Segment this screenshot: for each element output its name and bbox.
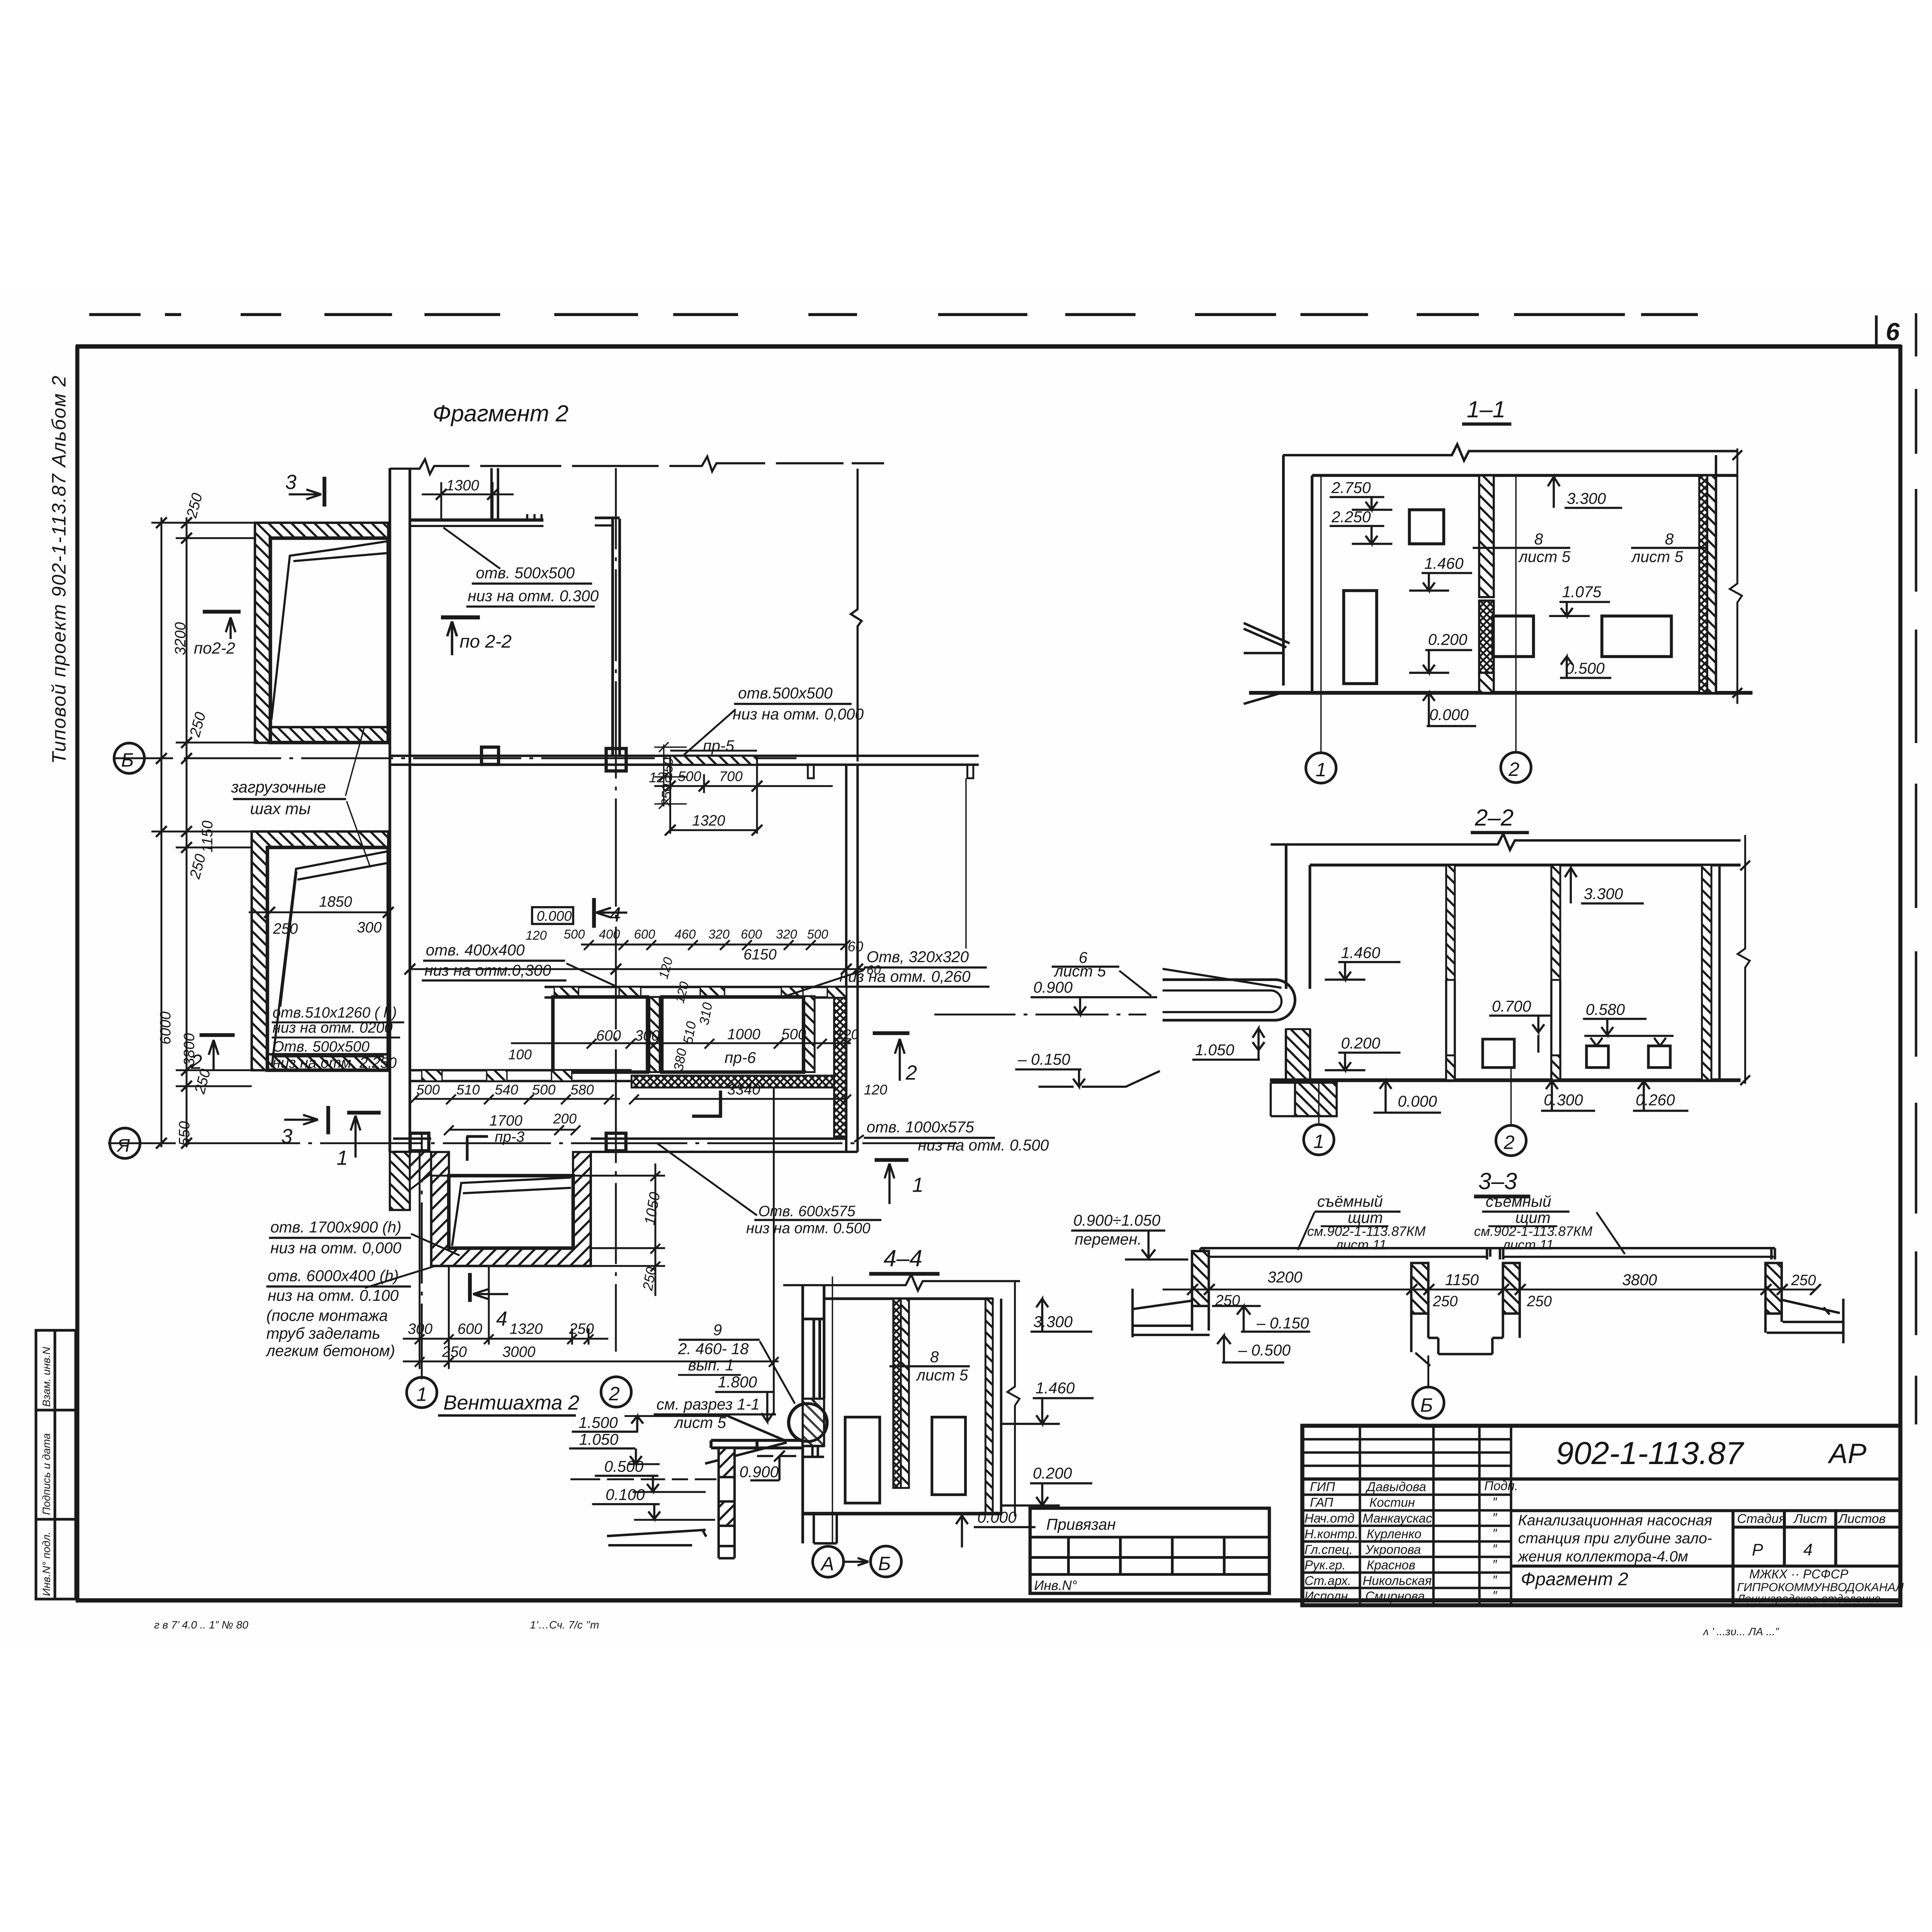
svg-text:1320: 1320: [692, 813, 725, 829]
wall hatched below pipe: [1286, 1029, 1310, 1080]
lower shaft chute lines: [272, 851, 388, 1067]
svg-text:легким бетоном): легким бетоном): [265, 1342, 395, 1359]
svg-text:0.000: 0.000: [977, 1508, 1017, 1526]
svg-text:580: 580: [570, 1082, 594, 1098]
lower shaft walls hatched: [252, 832, 388, 1070]
svg-text:– 0.150: – 0.150: [1256, 1314, 1309, 1332]
0.000 boxed level: [532, 907, 573, 924]
foundation foot: [1295, 1083, 1337, 1116]
svg-text:4: 4: [1803, 1541, 1813, 1560]
pipe lines entering left: [705, 1416, 787, 1463]
top slab bottom: [1312, 473, 1738, 478]
svg-text:(после монтажа: (после монтажа: [266, 1306, 388, 1324]
circle 2: [1496, 1125, 1526, 1155]
svg-text:съёмный: съёмный: [1486, 1192, 1551, 1210]
bottom column foot: [814, 1514, 837, 1543]
svg-text:320: 320: [776, 927, 798, 941]
svg-text:0.900: 0.900: [740, 1463, 779, 1481]
partition hatched: [1479, 475, 1494, 597]
pipe circle left: [788, 1403, 827, 1442]
vertical dim right of pit: [654, 1163, 657, 1296]
svg-text:0.000: 0.000: [537, 908, 572, 924]
svg-text:550: 550: [176, 1121, 193, 1146]
extension verticals bottom: [420, 1088, 774, 1413]
vent shaft cap band: [711, 1440, 803, 1448]
svg-text:0.700: 0.700: [1492, 997, 1531, 1015]
bottom wall of building: [393, 1137, 431, 1140]
1850 dim in lower shaft: [249, 911, 388, 914]
main title block outer: [1302, 1426, 1900, 1605]
extension lines: [151, 523, 255, 1086]
svg-text:Канализационная насосная: Канализационная насосная: [1518, 1512, 1713, 1529]
small tick below band: [808, 765, 814, 778]
svg-text:0.100: 0.100: [605, 1486, 645, 1503]
bottom crosshatch band of chambers: [631, 1076, 834, 1088]
floor: [1249, 690, 1753, 696]
svg-text:0.200: 0.200: [1341, 1034, 1380, 1052]
top broken edge of plan: [390, 456, 884, 474]
svg-text:100: 100: [508, 1047, 532, 1063]
top break line: [783, 1274, 1020, 1291]
svg-text:3: 3: [281, 1126, 293, 1148]
svg-text:120: 120: [649, 770, 672, 786]
svg-text:Ст.арх.: Ст.арх.: [1304, 1573, 1351, 1588]
svg-text:отв. 400х400: отв. 400х400: [426, 941, 525, 959]
svg-text:Стадия: Стадия: [1737, 1512, 1786, 1526]
svg-text:лист 11: лист 11: [1502, 1238, 1554, 1253]
svg-text:6: 6: [1886, 318, 1900, 346]
svg-text:3.300: 3.300: [1567, 490, 1606, 507]
dim chain 500 510 540 500 580: [414, 1097, 620, 1100]
svg-text:1850: 1850: [319, 893, 352, 910]
sump between pillar2 and 3: [1428, 1338, 1503, 1354]
section 4 arrow top: [591, 898, 597, 928]
svg-text:6150: 6150: [743, 946, 777, 963]
pillar 4 hatched right: [1765, 1263, 1782, 1314]
svg-text:1: 1: [417, 1383, 427, 1405]
svg-text:вып. 1: вып. 1: [688, 1356, 734, 1374]
svg-text:″: ″: [1492, 1495, 1497, 1509]
svg-text:низ на отм.0,300: низ на отм.0,300: [425, 961, 551, 979]
left foundation block: [553, 997, 648, 1072]
svg-text:низ на отм. 0.500: низ на отм. 0.500: [746, 1220, 871, 1237]
vent square: [1409, 510, 1444, 544]
svg-text:250: 250: [1791, 1272, 1816, 1289]
svg-text:1.050: 1.050: [1195, 1041, 1235, 1059]
interior wall crosshatched: [893, 1299, 901, 1488]
circle 1 bottom: [406, 1378, 437, 1408]
section 2 arrow left: [199, 1032, 235, 1038]
svg-text:500: 500: [807, 927, 829, 941]
svg-text:Смирнова: Смирнова: [1365, 1589, 1425, 1603]
hatched corner below-left: [390, 1152, 410, 1210]
svg-text:Никольская: Никольская: [1362, 1573, 1432, 1588]
svg-text:лист 5: лист 5: [916, 1366, 968, 1384]
svg-text:Нач.отд: Нач.отд: [1304, 1511, 1354, 1525]
svg-text:0.500: 0.500: [604, 1458, 644, 1475]
svg-text:АР: АР: [1827, 1438, 1867, 1469]
svg-text:лист 5: лист 5: [1054, 962, 1106, 980]
svg-text:пр-5: пр-5: [703, 737, 734, 755]
svg-text:0.900÷1.050: 0.900÷1.050: [1073, 1211, 1161, 1229]
svg-text:3.300: 3.300: [1033, 1313, 1073, 1330]
left signature grid: [1302, 1426, 1900, 1605]
svg-text:2: 2: [1503, 1131, 1515, 1153]
svg-text:120: 120: [864, 1082, 888, 1098]
svg-text:отв. 1700х900 (h): отв. 1700х900 (h): [270, 1218, 401, 1236]
left dimension chains: [160, 517, 163, 1147]
svg-text:низ на отм. 2,250: низ на отм. 2,250: [272, 1054, 397, 1071]
svg-text:Манкаускас: Манкаускас: [1362, 1511, 1432, 1525]
svg-text:1150: 1150: [199, 820, 216, 852]
svg-text:Ленинградское отделение: Ленинградское отделение: [1736, 1592, 1881, 1605]
circle 1: [1304, 1124, 1334, 1155]
svg-text:отв.510х1260 ( h): отв.510х1260 ( h): [272, 1004, 397, 1021]
svg-text:Отв, 320х320: Отв, 320х320: [867, 948, 969, 966]
svg-text:отв.500х500: отв.500х500: [738, 684, 833, 702]
dims 120 500 700 under pr5: [654, 785, 833, 787]
right outer dashed sheet edge: [1914, 313, 1918, 1425]
right wall of hall: [845, 765, 848, 1152]
svg-text:А: А: [820, 1553, 834, 1575]
svg-text:2–2: 2–2: [1475, 805, 1514, 831]
upper hall top ledge: [411, 518, 544, 522]
svg-text:Исполн.: Исполн.: [1304, 1589, 1351, 1603]
svg-text:низ на отм. 0.100: низ на отм. 0.100: [268, 1287, 399, 1304]
svg-text:0.260: 0.260: [1636, 1091, 1675, 1109]
svg-text:Б: Б: [1420, 1394, 1433, 1416]
svg-text:Листов: Листов: [1838, 1512, 1886, 1526]
floor: [802, 1511, 1001, 1516]
svg-text:1.460: 1.460: [1036, 1379, 1075, 1397]
svg-text:Отв. 500х500: Отв. 500х500: [272, 1038, 370, 1055]
svg-text:Р: Р: [1752, 1541, 1763, 1560]
vent shaft left column: [719, 1448, 735, 1558]
svg-text:700: 700: [719, 769, 743, 784]
svg-text:перемен.: перемен.: [1075, 1230, 1142, 1248]
svg-text:2.750: 2.750: [1331, 479, 1371, 497]
axis 1 thin line: [1320, 475, 1322, 752]
svg-text:Б: Б: [878, 1552, 891, 1574]
svg-text:1320: 1320: [510, 1321, 543, 1337]
svg-text:Инв.N°: Инв.N°: [1034, 1578, 1077, 1593]
svg-text:3340: 3340: [727, 1082, 760, 1098]
svg-text:Я: Я: [116, 1135, 130, 1156]
pit chute lines: [452, 1178, 571, 1246]
axis line vertical: [832, 1277, 833, 1544]
svg-text:2: 2: [905, 1062, 917, 1084]
circle 2: [1501, 752, 1531, 782]
svg-text:540: 540: [495, 1082, 518, 1098]
svg-text:Привязан: Привязан: [1046, 1515, 1116, 1533]
svg-text:отв. 500х500: отв. 500х500: [476, 564, 575, 582]
svg-text:см.902-1-113.87КМ: см.902-1-113.87КМ: [1307, 1224, 1426, 1239]
svg-text:1300: 1300: [446, 477, 479, 494]
floor: [1270, 1078, 1740, 1083]
border right: [1898, 345, 1903, 1604]
upper shaft inner thick border: [270, 538, 388, 743]
svg-text:1.075: 1.075: [1562, 583, 1602, 600]
svg-text:500: 500: [532, 1082, 556, 1098]
svg-text:Лист: Лист: [1793, 1512, 1827, 1526]
column sq1 on axis B: [481, 747, 498, 765]
top break line: [1271, 834, 1741, 850]
svg-text:лист 11: лист 11: [1335, 1238, 1386, 1253]
po 2-2 arrow in hall: [441, 614, 480, 620]
svg-text:2: 2: [1508, 758, 1519, 780]
circle 1: [1306, 753, 1336, 783]
right edge of upper hall: [851, 469, 862, 762]
svg-text:250: 250: [1432, 1293, 1458, 1310]
svg-text:″: ″: [1492, 1588, 1497, 1602]
upper shaft walls hatched: [255, 523, 388, 743]
svg-text:3.300: 3.300: [1584, 885, 1623, 903]
svg-text:″: ″: [1492, 1557, 1497, 1571]
svg-text:3800: 3800: [1622, 1271, 1657, 1289]
svg-text:3000: 3000: [502, 1344, 536, 1360]
svg-text:1–1: 1–1: [1467, 396, 1505, 422]
svg-text:см. разрез 1-1: см. разрез 1-1: [656, 1395, 760, 1413]
top break line: [1283, 444, 1737, 461]
right pump rect: [1602, 616, 1672, 656]
svg-text:Фрагмент 2: Фрагмент 2: [433, 400, 569, 426]
svg-text:Укропова: Укропова: [1365, 1542, 1421, 1556]
small pump squares: [1483, 1039, 1514, 1067]
top slab bottom: [1310, 863, 1741, 867]
svg-text:Вентшахта 2: Вентшахта 2: [443, 1392, 579, 1414]
svg-text:300: 300: [635, 1027, 660, 1044]
svg-text:460: 460: [675, 927, 696, 941]
svg-text:– 0.150: – 0.150: [1017, 1051, 1070, 1068]
svg-text:1.500: 1.500: [578, 1413, 618, 1431]
svg-text:низ на отм. 0200: низ на отм. 0200: [272, 1019, 393, 1036]
svg-text:2: 2: [609, 1383, 620, 1405]
svg-text:2. 460- 18: 2. 460- 18: [678, 1340, 749, 1357]
left bracket floor: [1133, 1289, 1209, 1337]
svg-text:320: 320: [708, 927, 730, 941]
svg-text:250: 250: [273, 920, 298, 937]
pit inner rect: [449, 1176, 573, 1248]
svg-text:Н.контр.: Н.контр.: [1304, 1527, 1358, 1541]
circle 2 bottom: [601, 1377, 631, 1407]
middle hatched wall: [650, 997, 660, 1072]
svg-text:ʌ ’ ...зʋ... ЛА ...”: ʌ ’ ...зʋ... ЛА ...”: [1702, 1626, 1779, 1638]
svg-text:8: 8: [1665, 530, 1674, 548]
pit outer hatched walls: [431, 1152, 591, 1266]
svg-text:лист 5: лист 5: [1631, 548, 1684, 565]
svg-text:″: ″: [1492, 1573, 1497, 1587]
dims above blocks: [511, 1042, 851, 1044]
svg-text:г в 7’ 4.0 .. 1” № 80: г в 7’ 4.0 .. 1” № 80: [154, 1619, 248, 1631]
svg-text:1: 1: [1316, 759, 1327, 781]
svg-text:″: ″: [1492, 1526, 1497, 1540]
right description area: [1511, 1511, 1901, 1605]
pillar 1 hatched: [1192, 1251, 1209, 1306]
svg-text:0.300: 0.300: [1544, 1091, 1583, 1109]
svg-text:″: ″: [1492, 1510, 1497, 1525]
angle mark in hall: [692, 1090, 722, 1117]
right dim line: [1738, 835, 1750, 1084]
top dim chain of chambers: [581, 943, 846, 946]
svg-text:3–3: 3–3: [1478, 1168, 1517, 1194]
svg-text:4: 4: [496, 1308, 507, 1330]
svg-text:Курленко: Курленко: [1367, 1527, 1422, 1541]
left wall: [1281, 455, 1285, 685]
covers top lines: [1201, 1247, 1775, 1250]
svg-text:1: 1: [912, 1174, 923, 1197]
svg-text:загрузочные: загрузочные: [231, 778, 326, 796]
svg-text:500: 500: [564, 927, 585, 941]
right wall hatched: [985, 1299, 993, 1514]
svg-text:по2-2: по2-2: [194, 639, 235, 657]
svg-text:2: 2: [190, 1051, 202, 1073]
svg-text:ГИПРОКОММУНВОДОКАНАЛ: ГИПРОКОММУНВОДОКАНАЛ: [1737, 1580, 1904, 1594]
pit top corner hatch: [431, 1152, 449, 1176]
dim line: [1163, 1288, 1815, 1291]
chamber top wall band: [544, 985, 846, 989]
section 4 arrow bottom: [467, 1273, 473, 1302]
door rects: [845, 1417, 880, 1503]
svg-text:станция при глубине зало-: станция при глубине зало-: [1518, 1530, 1712, 1547]
svg-text:6000: 6000: [157, 1011, 174, 1044]
svg-text:500: 500: [781, 1026, 806, 1043]
right dim line: [1007, 1281, 1019, 1516]
svg-text:шах ты: шах ты: [250, 799, 311, 818]
svg-text:ГАП: ГАП: [1310, 1495, 1333, 1510]
circle B: [114, 743, 144, 773]
svg-text:120: 120: [835, 1026, 859, 1042]
svg-text:250: 250: [1527, 1293, 1552, 1310]
svg-text:низ на отм. 0.300: низ на отм. 0.300: [468, 587, 599, 605]
svg-text:Давыдова: Давыдова: [1365, 1480, 1426, 1494]
svg-text:съёмный: съёмный: [1317, 1192, 1383, 1210]
left column: [803, 1285, 824, 1543]
lower shaft inner thick border: [267, 847, 388, 1070]
svg-text:600: 600: [457, 1321, 483, 1337]
right wall crosshatch: [1699, 475, 1708, 693]
bottom dim chains: [403, 1337, 609, 1340]
svg-text:4: 4: [610, 904, 621, 926]
svg-text:– 0.500: – 0.500: [1238, 1341, 1291, 1359]
svg-text:Рук.гр.: Рук.гр.: [1304, 1558, 1346, 1572]
pr-6 block: [662, 997, 804, 1072]
svg-text:низ на отм. 0,000: низ на отм. 0,000: [733, 705, 864, 723]
svg-text:120: 120: [526, 928, 547, 942]
svg-text:200: 200: [553, 1111, 577, 1127]
left wall: [1284, 844, 1288, 989]
right wall: [1702, 865, 1711, 1080]
upper shaft chute lines: [271, 541, 388, 719]
svg-text:510: 510: [456, 1082, 480, 1098]
right dim line: [1730, 448, 1742, 704]
svg-text:300: 300: [357, 919, 382, 936]
svg-text:отв. 1000х575: отв. 1000х575: [867, 1118, 975, 1136]
svg-text:9: 9: [713, 1321, 722, 1338]
section 1 arrow bottom: [347, 1110, 381, 1116]
1300 dim top: [422, 493, 514, 496]
svg-text:3200: 3200: [172, 622, 189, 655]
svg-text:Типовой проект 902-1-113.87 Ал: Типовой проект 902-1-113.87 Альбом 2: [48, 375, 70, 764]
svg-text:по 2-2: по 2-2: [459, 631, 512, 652]
svg-text:0.900: 0.900: [1033, 978, 1073, 996]
svg-text:Инв.N° подл.: Инв.N° подл.: [40, 1532, 52, 1596]
pr-3 dim 1700 200: [449, 1128, 575, 1131]
axis 2 thin line: [1515, 475, 1517, 752]
svg-text:0.580: 0.580: [1586, 1000, 1625, 1018]
svg-text:1150: 1150: [1445, 1271, 1479, 1289]
column sq on axis Ya left: [410, 1133, 429, 1151]
svg-text:1: 1: [337, 1147, 348, 1170]
axis B wall band: [390, 754, 979, 757]
svg-text:Костин: Костин: [1369, 1495, 1415, 1510]
main left wall double line: [388, 468, 392, 1152]
svg-text:отв. 6000х400 (h): отв. 6000х400 (h): [268, 1267, 399, 1284]
svg-text:низ на отм. 0.500: низ на отм. 0.500: [918, 1136, 1049, 1154]
border left: [75, 346, 80, 1600]
vent duct verticals above ledge: [490, 468, 493, 520]
svg-text:Подпись и дата: Подпись и дата: [40, 1433, 52, 1515]
left part bottom wall band with hatch: [411, 1068, 632, 1072]
svg-text:3: 3: [285, 471, 296, 493]
svg-text:600: 600: [634, 927, 656, 941]
svg-text:8: 8: [1534, 530, 1543, 548]
svg-text:1.460: 1.460: [1424, 554, 1464, 572]
section 2 arrow right: [873, 1031, 910, 1036]
pillar 2 hatched: [1411, 1263, 1428, 1314]
svg-text:ГИП: ГИП: [1310, 1480, 1335, 1494]
signature rows text: [1304, 1478, 1518, 1603]
small step under pipe: [803, 1446, 824, 1457]
svg-text:3200: 3200: [1267, 1268, 1303, 1286]
crosshatch band on right wall: [834, 996, 846, 1136]
svg-text:1’…Сч. 7/с ’’т: 1’…Сч. 7/с ’’т: [530, 1619, 599, 1631]
Привязан table: [1030, 1508, 1269, 1593]
top slab: [823, 1297, 993, 1301]
right top wall of upper hall: [611, 519, 615, 756]
svg-text:Подп.: Подп.: [1484, 1478, 1518, 1493]
axis Ya centerline: [108, 1142, 957, 1145]
svg-text:1: 1: [1313, 1130, 1324, 1152]
svg-text:Б: Б: [121, 749, 134, 771]
svg-text:МЖКХ ·· РСФСР: МЖКХ ·· РСФСР: [1749, 1567, 1849, 1581]
axis 1 centerline vertical: [420, 1134, 423, 1379]
ground ramp left: [1244, 623, 1290, 704]
svg-text:1.050: 1.050: [579, 1430, 619, 1448]
svg-text:труб заделать: труб заделать: [266, 1325, 380, 1342]
circle Ya: [110, 1128, 140, 1158]
chain ticks: [156, 517, 192, 1149]
svg-text:Краснов: Краснов: [1367, 1558, 1415, 1572]
B circle: [1413, 1387, 1444, 1418]
svg-text:0.200: 0.200: [1428, 631, 1468, 648]
bottom-left stamp column: [36, 1330, 76, 1599]
svg-text:902-1-113.87: 902-1-113.87: [1556, 1435, 1745, 1471]
svg-text:0.000: 0.000: [1398, 1092, 1437, 1110]
left door rect: [1344, 590, 1376, 684]
column sq2 on axis B: [606, 748, 626, 771]
svg-text:1000: 1000: [727, 1026, 760, 1043]
svg-text:Гл.спец.: Гл.спец.: [1304, 1542, 1353, 1556]
svg-text:4–4: 4–4: [884, 1245, 922, 1271]
svg-text:600: 600: [741, 927, 762, 941]
center pump rect: [1493, 616, 1534, 656]
axis B centerline: [114, 757, 796, 760]
svg-text:лист 5: лист 5: [1518, 548, 1571, 565]
svg-text:500: 500: [417, 1082, 440, 1098]
svg-text:250: 250: [442, 1344, 467, 1360]
svg-text:пр-6: пр-6: [724, 1049, 756, 1066]
svg-text:1.460: 1.460: [1341, 944, 1380, 961]
